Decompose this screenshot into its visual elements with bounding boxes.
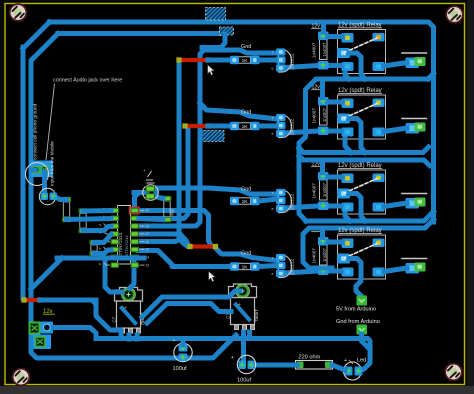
svg-text:Gnd: Gnd bbox=[241, 187, 251, 193]
diode D2 top pad bbox=[318, 97, 329, 106]
wire gap3 upper horizontal bbox=[306, 212, 434, 222]
resistor R4 pads bbox=[230, 262, 239, 270]
IC U1 right pad pin14 bbox=[131, 255, 140, 261]
transistor Q4 outline bbox=[279, 255, 292, 278]
terminal J2 silkscreen line bbox=[402, 118, 427, 120]
hatched region 2 bbox=[212, 27, 240, 35]
svg-text:c: c bbox=[272, 256, 274, 260]
resistor 220ohm outline bbox=[296, 361, 333, 370]
svg-text:1n4007: 1n4007 bbox=[312, 108, 317, 124]
transistor Q4 pad 3 bbox=[276, 270, 286, 277]
svg-text:xtal: xtal bbox=[170, 209, 175, 216]
diode D1 bottom pad bbox=[318, 61, 329, 70]
regulator U3 legs bbox=[234, 325, 239, 331]
diode D3 bottom pad bbox=[318, 202, 329, 211]
relay K2 pad 4 bbox=[342, 128, 354, 137]
wire diode1 top to top trace bbox=[321, 22, 326, 32]
relay K4 pad 5 bbox=[373, 268, 385, 277]
svg-text:e: e bbox=[272, 67, 274, 71]
IC U1 right pad pin15 bbox=[131, 247, 140, 253]
svg-text:DC: DC bbox=[232, 125, 237, 129]
wire left outer vertical bbox=[21, 47, 26, 298]
svg-text:2N2222: 2N2222 bbox=[290, 53, 295, 70]
wire IC pad5 stub to red4 left cap bbox=[138, 240, 179, 242]
svg-text:2N2222: 2N2222 bbox=[290, 193, 295, 210]
wire red3 to bottom-left area bbox=[40, 300, 96, 310]
audio jack circle bbox=[26, 163, 49, 186]
wire compB bottom to IC pad3 bbox=[83, 227, 111, 231]
wire relay1 BL drop to gap1 bbox=[345, 73, 349, 79]
mounting hole bottom-left bbox=[13, 369, 30, 386]
wire Gnd3 trace to transistor3 bbox=[156, 188, 277, 194]
wire regulator U2 legs to bottom horizontal bbox=[127, 335, 132, 339]
svg-text:1K: 1K bbox=[242, 264, 249, 270]
wire diode D1 top pad to relay TL pad bbox=[328, 34, 342, 39]
wire IC pad4 to red4 left cap bbox=[138, 234, 188, 245]
svg-text:100uf: 100uf bbox=[173, 366, 187, 372]
relay K4 pad 2 bbox=[373, 239, 385, 248]
wire regulator U3 right leg down bbox=[247, 332, 252, 339]
wire relay K2 BR pad to terminal bbox=[384, 128, 407, 132]
wire resistor R3 to transistor Q3 base bbox=[259, 199, 276, 201]
svg-text:15: 15 bbox=[146, 248, 150, 252]
relay K4 pad 3 bbox=[337, 254, 350, 264]
diode D1 top pad bbox=[318, 32, 329, 41]
wire relay K4 BR pad to terminal bbox=[384, 268, 407, 272]
svg-text:Gnd: Gnd bbox=[241, 110, 251, 116]
hatched region 1 bbox=[193, 8, 238, 21]
terminal J4 green pad bbox=[415, 263, 426, 272]
svg-text:c: c bbox=[272, 191, 274, 195]
svg-text:e: e bbox=[272, 272, 274, 276]
svg-text:7805T: 7805T bbox=[254, 309, 259, 322]
wire Gnd2 trace to transistor2 bbox=[200, 103, 277, 119]
wire relay4 coil pad to 5V pad bbox=[356, 276, 362, 296]
wire transistor Q2 emitter to diode bottom to relay pad bbox=[285, 131, 341, 133]
svg-text:connect cell phone ground: connect cell phone ground bbox=[33, 103, 39, 160]
mounting hole bottom-right bbox=[445, 364, 462, 381]
transistor Q1 pad 1 bbox=[276, 48, 286, 55]
svg-text:1n4007: 1n4007 bbox=[322, 42, 327, 57]
svg-text:220 ohm: 220 ohm bbox=[299, 355, 321, 361]
wire Gnd3 left extension bbox=[154, 188, 159, 193]
relay K4 silkscreen box bbox=[338, 235, 386, 279]
svg-text:1n4007: 1n4007 bbox=[322, 182, 327, 197]
wire compB top to IC pad1 bbox=[83, 208, 111, 214]
resistor R2 outline bbox=[239, 123, 251, 129]
svg-text:1n4007: 1n4007 bbox=[312, 183, 317, 199]
wire diode D4 top pad to relay TL pad bbox=[328, 240, 342, 245]
terminal J1 silkscreen line bbox=[402, 52, 427, 54]
wire top outer left corner bbox=[23, 22, 50, 49]
relay K3 dashed contact line bbox=[345, 179, 378, 194]
wire Gnd1 trace to transistor1 bbox=[204, 50, 277, 53]
svg-text:input from the Mobile: input from the Mobile bbox=[50, 141, 56, 186]
wire Gnd4 trace to transistor4 bbox=[216, 248, 278, 261]
regulator U2 body outline bbox=[117, 301, 141, 328]
red jumper wire at y=126 bbox=[187, 124, 206, 128]
hatched region 3 bbox=[189, 131, 232, 142]
regulator U3 body outline bbox=[231, 298, 255, 325]
relay K3 pad 5 bbox=[373, 203, 385, 212]
IC U1 right pad pin17 bbox=[131, 231, 140, 237]
svg-text:20: 20 bbox=[146, 209, 150, 213]
diode D4 bottom pad bbox=[318, 267, 329, 276]
wire left fan diagonal down bbox=[31, 258, 62, 289]
led circle bbox=[344, 362, 362, 380]
terminal J3 blue pad bbox=[406, 198, 420, 209]
mounting hole top-left bbox=[10, 4, 27, 21]
wire relay K3 BR pad to terminal bbox=[384, 203, 407, 207]
wire transistor Q1 emitter to diode bottom to relay pad bbox=[285, 66, 341, 68]
mounting hole top-right bbox=[446, 6, 463, 23]
wire inner vertical to regulator2 diagonal bbox=[176, 335, 236, 358]
wire diode4 top to gap3 trace bbox=[320, 228, 325, 238]
mouse cursor 1 bbox=[208, 65, 215, 76]
wire regulator U3 mid leg to cap4 bbox=[241, 332, 246, 362]
svg-text:1K: 1K bbox=[242, 124, 249, 130]
wire IC pad6 diagonal to resistor4 line bbox=[138, 251, 230, 267]
IC U1 left pad pin3 bbox=[111, 223, 120, 229]
wire 220ohm to led bbox=[332, 365, 345, 370]
relay K1 coil trace inside box bbox=[349, 53, 365, 79]
wire top inner left corner + left inner vertical bbox=[31, 34, 176, 359]
regulator U3 tab pad bbox=[237, 285, 248, 296]
svg-text:5V from Arduino: 5V from Arduino bbox=[336, 307, 376, 313]
svg-text:connect Audio jack over here: connect Audio jack over here bbox=[53, 78, 122, 84]
terminal J1 blue pad bbox=[406, 58, 420, 69]
wire jack right pad down to circle2 bbox=[42, 172, 47, 193]
capacitor C4 pads bbox=[239, 361, 247, 370]
resistor R3 outline bbox=[239, 198, 251, 204]
svg-text:Gnd from Arduino: Gnd from Arduino bbox=[336, 319, 380, 325]
relay K4 coil trace inside box bbox=[349, 259, 361, 277]
cap symbol marks above circle1 bbox=[146, 171, 155, 183]
wire cap C3 top to bottom horizontal bbox=[181, 339, 186, 345]
terminal J1 green pad bbox=[415, 57, 426, 66]
wire top outer horizontal bbox=[50, 22, 434, 222]
circle1 crystal pads near IC top bbox=[143, 185, 159, 201]
regulator U2 tab pad bbox=[123, 289, 134, 300]
wire compA bottom to IC bbox=[67, 219, 112, 220]
terminal J4 silkscreen line bbox=[402, 258, 427, 260]
svg-text:1n4007: 1n4007 bbox=[312, 248, 317, 264]
wire Gnd pad down to led bbox=[360, 334, 370, 371]
wire bus x209 IC pad1 to red4 right cap bbox=[138, 211, 211, 246]
wire red2 to resistor2 bbox=[208, 124, 232, 129]
wire circle1 feed bbox=[134, 190, 147, 195]
regulator U2 tab outline bbox=[115, 288, 143, 302]
resistor R3 pads bbox=[230, 197, 239, 205]
terminal J3 silkscreen line bbox=[402, 193, 427, 195]
svg-text:1n4007: 1n4007 bbox=[322, 247, 327, 262]
relay K2 silkscreen box bbox=[338, 95, 386, 139]
pad Gnd from Arduino bbox=[357, 325, 368, 335]
wire resistor R1 to transistor Q1 base bbox=[259, 58, 276, 63]
resistor R1 outline bbox=[239, 57, 251, 63]
resistor R2 pads bbox=[230, 122, 239, 130]
transistor Q2 pad 2 bbox=[276, 122, 286, 129]
wire from hatched region 2 down bbox=[202, 34, 225, 48]
long bottom horizontal wire bbox=[96, 339, 370, 353]
svg-text:16: 16 bbox=[146, 240, 150, 244]
pad 5V from Arduino bbox=[357, 296, 368, 306]
transistor Q2 pad 1 bbox=[276, 114, 286, 121]
wire diode2 top to gap1 trace bbox=[320, 79, 325, 98]
circle2 input pads bbox=[39, 188, 55, 204]
wire relay2 BL drop to gap2 bbox=[345, 139, 351, 153]
svg-text:Led: Led bbox=[357, 358, 366, 364]
wire gap1 right join bbox=[428, 74, 434, 80]
diode D4 body outline bbox=[320, 245, 328, 266]
transistor Q1 pad 3 bbox=[276, 64, 286, 71]
relay K2 pad 5 bbox=[373, 128, 385, 137]
relay K1 pad 1 bbox=[342, 33, 354, 43]
red jumper wire at y=246.5 bbox=[192, 244, 214, 248]
wire diode D2 top pad to relay TL pad bbox=[328, 100, 342, 105]
relay K1 pad 4 bbox=[342, 62, 354, 71]
svg-text:c: c bbox=[272, 51, 274, 55]
wire regulator U2 diagonals to right bbox=[142, 291, 240, 317]
IC U1 left pad pin2 bbox=[111, 216, 120, 222]
regulator U2 legs bbox=[120, 328, 125, 334]
resistor 220ohm pads bbox=[297, 362, 304, 369]
transistor Q1 pad 2 bbox=[276, 56, 286, 63]
wire jack left pad to left bus bbox=[31, 168, 35, 173]
svg-text:DC: DC bbox=[232, 265, 237, 269]
wire bus x200 Gnd1 to IC pad3 bbox=[138, 50, 204, 226]
relay K3 pad 1 bbox=[342, 174, 354, 184]
wire left fan y258 to IC pad7 bbox=[57, 256, 144, 261]
wire compC bottom to IC pad6 bbox=[94, 250, 111, 254]
capacitor comp C left of IC bbox=[91, 245, 97, 251]
svg-text:Gnd: Gnd bbox=[241, 44, 251, 50]
svg-text:18: 18 bbox=[146, 224, 150, 228]
wire diode D3 top pad to relay TL pad bbox=[328, 175, 342, 180]
wire red3 bottom-left to regulator U2 left leg bbox=[96, 300, 121, 335]
capacitor comp B left of IC bbox=[80, 214, 86, 229]
relay K1 pad 5 bbox=[373, 62, 385, 71]
IC U1 left pad pin5 bbox=[111, 239, 120, 245]
diode D3 top pad bbox=[318, 172, 329, 181]
wire IC bottom to regulator U2 bbox=[130, 262, 135, 289]
relay K3 silkscreen box bbox=[338, 170, 386, 214]
relay K2 dashed contact line bbox=[345, 104, 378, 119]
IC U1 right pad pin19 bbox=[131, 216, 140, 222]
wire gap2 lower horizontal bbox=[299, 156, 323, 160]
capacitor comp A left of IC bbox=[63, 202, 69, 217]
relay K2 coil trace inside box bbox=[349, 119, 365, 153]
relay K1 silkscreen box bbox=[338, 30, 386, 74]
svg-text:e: e bbox=[272, 132, 274, 136]
wire gap1 horizontal snake bbox=[299, 79, 428, 221]
wire compC top to IC bbox=[94, 235, 111, 243]
red jumper wire at y=60 bbox=[181, 58, 206, 62]
capacitor C3 pads bbox=[179, 344, 188, 352]
relay K1 pad 3 bbox=[337, 48, 350, 58]
capacitor C3 circle bbox=[174, 343, 192, 361]
leader line bbox=[46, 84, 55, 161]
terminal J4 blue pad bbox=[406, 263, 420, 274]
svg-text:17: 17 bbox=[146, 232, 150, 236]
transistor Q2 pad 3 bbox=[276, 130, 286, 137]
svg-text:1n4007: 1n4007 bbox=[312, 42, 317, 58]
IC U1 right pad pin16 bbox=[131, 239, 140, 245]
wire relay3 BL drop to gap3 bbox=[345, 214, 350, 221]
wire relay K1 BR pad to terminal bbox=[384, 63, 407, 67]
crystal X2 right of IC bbox=[164, 201, 170, 217]
mouse cursor 2 bbox=[209, 271, 216, 282]
diode D4 top pad bbox=[318, 237, 329, 246]
wire transistor Q3 emitter to diode bottom to relay pad bbox=[285, 206, 341, 208]
wire y258 junction down to U2 tab bbox=[105, 258, 122, 292]
wire diode3 top to gap2 trace bbox=[320, 160, 325, 173]
svg-text:100uf: 100uf bbox=[237, 378, 251, 384]
regulator U3 tab outline bbox=[229, 284, 257, 298]
IC U1 right pad pin18 bbox=[131, 223, 140, 229]
svg-text:DC: DC bbox=[232, 200, 237, 204]
relay K2 pad 2 bbox=[373, 99, 385, 108]
connector X1 lower blue pad bbox=[33, 335, 51, 350]
svg-text:1K: 1K bbox=[242, 58, 249, 64]
IC U1 left pad pin1 bbox=[111, 208, 120, 214]
transistor Q4 pad 1 bbox=[276, 254, 286, 261]
svg-text:2N2222: 2N2222 bbox=[290, 118, 295, 135]
wire IC right pad1 area bbox=[135, 193, 148, 205]
svg-text:+: + bbox=[143, 168, 146, 173]
transistor Q3 outline bbox=[279, 190, 292, 213]
svg-text:C7: C7 bbox=[112, 316, 117, 322]
svg-text:+: + bbox=[231, 355, 234, 361]
relay K4 pad 1 bbox=[342, 239, 354, 249]
svg-text:13: 13 bbox=[146, 263, 150, 267]
relay K1 dashed contact line bbox=[345, 38, 378, 53]
wire cap4 to 220ohm bbox=[254, 363, 297, 368]
svg-text:2N2222: 2N2222 bbox=[290, 258, 295, 275]
connector X1 blue pad with hole bbox=[41, 322, 54, 334]
relay K3 coil trace inside box bbox=[349, 194, 365, 222]
relay K4 dashed contact line bbox=[345, 244, 378, 259]
wire gap2 upper horizontal branch bbox=[299, 147, 429, 153]
terminal J3 green pad bbox=[415, 198, 426, 207]
IC U1 left pad pin7 bbox=[111, 255, 120, 261]
capacitor C4 circle bbox=[237, 355, 255, 373]
wire transistor Q4 emitter to diode bottom to relay pad bbox=[285, 271, 341, 273]
diode D2 body outline bbox=[320, 105, 328, 126]
diode D3 body outline bbox=[320, 180, 328, 201]
wire connector to bottom network bbox=[53, 328, 96, 339]
red jumper wire at y=300 bbox=[26, 298, 38, 302]
relay K3 pad 2 bbox=[373, 174, 385, 183]
svg-text:e: e bbox=[272, 207, 274, 211]
relay K2 pad 3 bbox=[337, 114, 350, 124]
terminal J2 green pad bbox=[415, 123, 426, 132]
diode D1 body outline bbox=[320, 39, 328, 60]
relay K3 pad 4 bbox=[342, 203, 354, 212]
IC U1 left pad pin4 bbox=[111, 231, 120, 237]
wire gap2 lower right bbox=[323, 160, 430, 166]
connector X1 green pad bbox=[30, 323, 40, 334]
wire resistor R4 to transistor Q4 base bbox=[259, 266, 276, 267]
relay K1 pad 2 bbox=[373, 33, 385, 42]
transistor Q4 pad 2 bbox=[276, 262, 286, 269]
svg-text:ATTINY2313: ATTINY2313 bbox=[125, 235, 129, 256]
transistor Q2 outline bbox=[279, 115, 292, 138]
wire gap3 lower horizontal bbox=[303, 228, 332, 268]
transistor Q3 pad 3 bbox=[276, 205, 286, 212]
wire compA top to circle2 bbox=[54, 196, 67, 200]
IC U1 body outline bbox=[118, 206, 131, 265]
transistor Q1 outline bbox=[279, 50, 292, 73]
wire xtal bottom to IC pad2 bbox=[139, 219, 163, 220]
wire resistor R2 to transistor Q2 base bbox=[259, 124, 276, 129]
diode D2 bottom pad bbox=[318, 127, 329, 136]
transistor Q3 pad 2 bbox=[276, 197, 286, 204]
wire bus x188 red2-cap down to IC pad2 bbox=[138, 128, 188, 219]
IC U1 left pad pin6 bbox=[111, 247, 120, 253]
wire bus x179 red1-cap to red4-cap bbox=[179, 60, 187, 246]
svg-text:c: c bbox=[272, 116, 274, 120]
wire circle1 to xtal top bbox=[155, 197, 163, 199]
resistor R1 pads bbox=[230, 56, 239, 64]
relay K4 pad 4 bbox=[342, 268, 354, 277]
svg-text:+: + bbox=[344, 358, 347, 364]
svg-text:DC: DC bbox=[232, 59, 237, 63]
relay K2 pad 1 bbox=[342, 99, 354, 109]
IC U1 left pad pin8 bbox=[111, 262, 120, 268]
terminal J2 blue pad bbox=[406, 123, 420, 134]
wire top inner horizontal bbox=[58, 31, 221, 36]
IC U1 right pad pin20 bbox=[130, 207, 140, 214]
svg-text:Gnd: Gnd bbox=[241, 251, 251, 257]
IC U1 right pad pin13 bbox=[131, 262, 140, 268]
wire red1 to resistor1 bbox=[208, 58, 232, 63]
resistor R4 outline bbox=[239, 263, 251, 269]
relay K3 pad 3 bbox=[337, 189, 350, 199]
svg-text:1K: 1K bbox=[242, 199, 249, 205]
audio jack J5 pads bbox=[31, 161, 54, 178]
svg-text:1n4007: 1n4007 bbox=[322, 107, 327, 122]
led pads bbox=[345, 367, 353, 376]
svg-text:+: + bbox=[173, 338, 176, 344]
transistor Q3 pad 1 bbox=[276, 189, 286, 196]
